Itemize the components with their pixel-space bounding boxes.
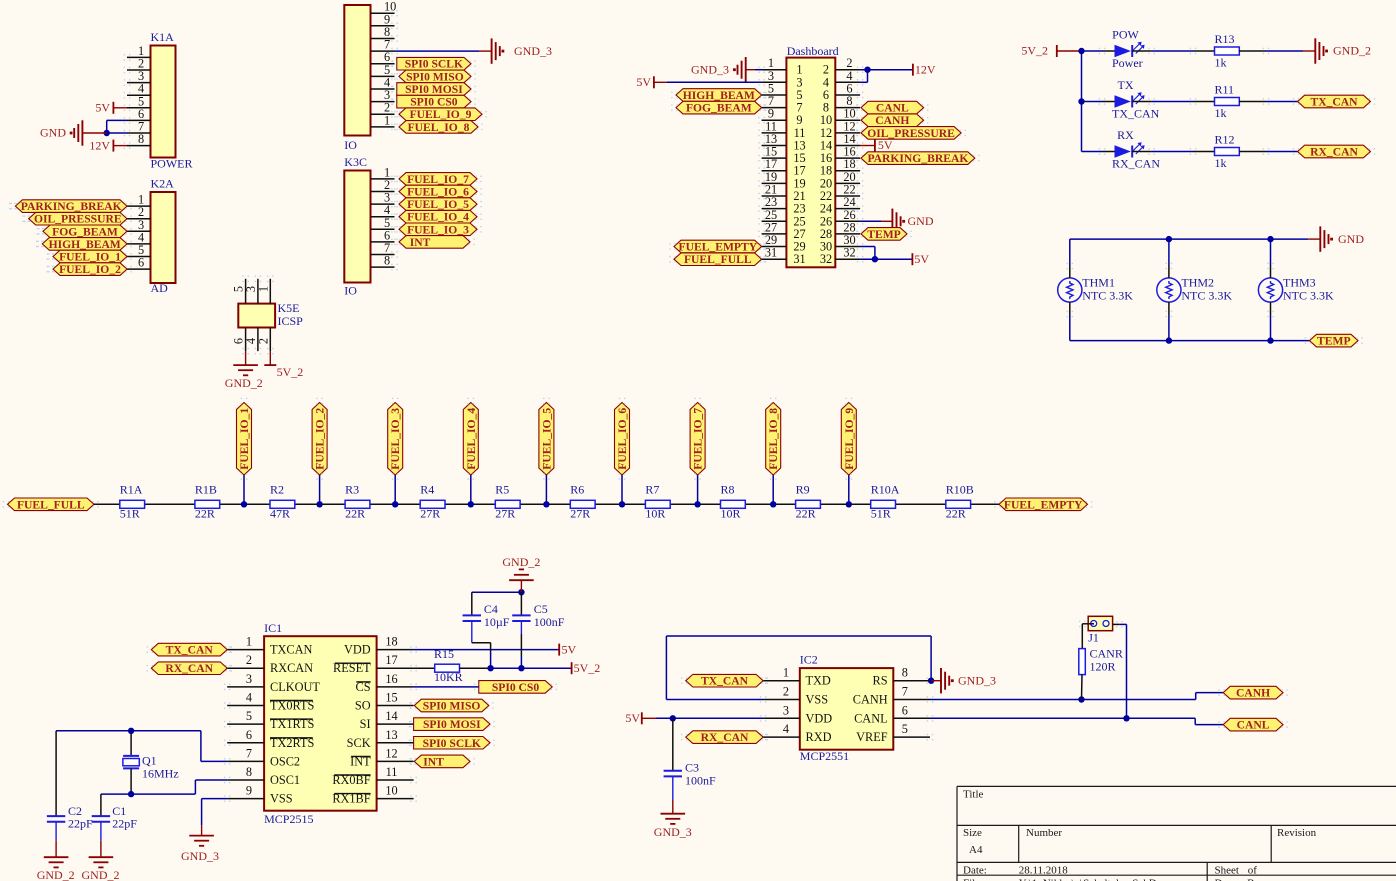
svg-text:SPI0 SCLK: SPI0 SCLK [423, 737, 481, 750]
svg-text:HIGH_BEAM: HIGH_BEAM [49, 238, 121, 251]
svg-text:100nF: 100nF [685, 774, 716, 788]
svg-text:AD: AD [151, 281, 169, 295]
svg-text:TEMP: TEMP [867, 228, 901, 241]
svg-text:K3C: K3C [344, 155, 367, 169]
svg-text:120R: 120R [1090, 660, 1116, 674]
svg-text:SO: SO [355, 699, 371, 713]
svg-text:FUEL_IO_2: FUEL_IO_2 [59, 263, 121, 276]
svg-text:5V: 5V [636, 75, 651, 89]
svg-text:VDD: VDD [344, 643, 371, 657]
svg-text:R4: R4 [420, 483, 434, 497]
svg-text:6: 6 [246, 728, 252, 742]
svg-text:5V: 5V [914, 252, 929, 266]
svg-text:OSC2: OSC2 [270, 754, 300, 768]
svg-text:1k: 1k [1215, 106, 1227, 120]
svg-text:GND_3: GND_3 [181, 849, 219, 863]
svg-text:IC2: IC2 [800, 653, 818, 667]
svg-text:CLKOUT: CLKOUT [270, 680, 320, 694]
svg-text:IO: IO [344, 138, 357, 152]
svg-text:R9: R9 [796, 483, 810, 497]
svg-text:5V_2: 5V_2 [574, 661, 601, 675]
svg-text:R2: R2 [270, 483, 284, 497]
svg-text:FUEL_IO_7: FUEL_IO_7 [407, 173, 469, 186]
svg-text:GND_3: GND_3 [958, 673, 996, 687]
svg-text:FUEL_IO_8: FUEL_IO_8 [408, 121, 470, 134]
svg-text:R6: R6 [570, 483, 584, 497]
svg-text:INT: INT [410, 236, 431, 249]
svg-text:VSS: VSS [270, 792, 293, 806]
svg-text:22R: 22R [946, 507, 966, 521]
svg-text:CANL: CANL [876, 102, 909, 115]
svg-text:Q1: Q1 [142, 754, 157, 768]
svg-text:Revision: Revision [1277, 827, 1317, 839]
svg-text:GND_2: GND_2 [502, 555, 540, 569]
svg-text:14: 14 [385, 709, 397, 723]
svg-text:FUEL_IO_9: FUEL_IO_9 [843, 408, 856, 470]
svg-text:1: 1 [384, 113, 390, 127]
svg-text:SPI0 MISO: SPI0 MISO [406, 70, 464, 83]
svg-text:R13: R13 [1215, 32, 1235, 46]
svg-text:K5E: K5E [278, 301, 300, 315]
svg-text:5V: 5V [562, 642, 577, 656]
svg-text:TXD: TXD [806, 674, 831, 688]
svg-text:RX_CAN: RX_CAN [701, 731, 749, 744]
svg-text:R10A: R10A [871, 483, 900, 497]
svg-text:GND: GND [40, 126, 66, 140]
svg-text:CANH: CANH [875, 114, 909, 127]
svg-text:TX: TX [1118, 78, 1134, 92]
svg-text:FUEL_IO_3: FUEL_IO_3 [389, 408, 402, 470]
svg-text:32: 32 [820, 252, 832, 266]
svg-text:47R: 47R [270, 507, 290, 521]
svg-text:GND_2: GND_2 [225, 376, 263, 390]
svg-text:100nF: 100nF [534, 615, 565, 629]
svg-text:Date:: Date: [963, 864, 987, 876]
svg-text:TX_CAN: TX_CAN [1112, 107, 1160, 121]
svg-text:FUEL_IO_5: FUEL_IO_5 [540, 408, 553, 470]
svg-text:FUEL_IO_6: FUEL_IO_6 [616, 408, 629, 470]
svg-text:R10B: R10B [946, 483, 974, 497]
svg-text:27R: 27R [570, 507, 590, 521]
svg-text:13: 13 [385, 728, 397, 742]
svg-text:12V: 12V [89, 138, 110, 152]
svg-text:R5: R5 [495, 483, 509, 497]
svg-text:22pF: 22pF [68, 817, 93, 831]
svg-text:GND_3: GND_3 [514, 44, 552, 58]
svg-text:22R: 22R [195, 507, 215, 521]
svg-text:CANR: CANR [1090, 647, 1123, 661]
svg-text:10KR: 10KR [434, 670, 463, 684]
svg-text:16MHz: 16MHz [142, 767, 179, 781]
svg-text:SPI0 MISO: SPI0 MISO [423, 700, 481, 713]
svg-text:31: 31 [793, 252, 805, 266]
svg-text:RX_CAN: RX_CAN [1310, 146, 1358, 159]
svg-text:SPI0 MOSI: SPI0 MOSI [423, 718, 481, 731]
svg-text:SPI0 CS0: SPI0 CS0 [492, 681, 540, 694]
svg-text:GND: GND [908, 214, 934, 228]
svg-text:TX_CAN: TX_CAN [166, 644, 214, 657]
svg-text:R3: R3 [345, 483, 359, 497]
svg-text:CANH: CANH [1236, 687, 1270, 700]
svg-text:R12: R12 [1215, 133, 1235, 147]
svg-text:THM3: THM3 [1283, 276, 1316, 290]
svg-text:TXCAN: TXCAN [270, 643, 312, 657]
svg-text:FUEL_IO_5: FUEL_IO_5 [407, 198, 469, 211]
svg-text:1: 1 [783, 666, 789, 680]
svg-text:MCP2515: MCP2515 [264, 812, 313, 826]
svg-text:R7: R7 [645, 483, 659, 497]
svg-text:RS: RS [873, 674, 888, 688]
svg-text:THM2: THM2 [1181, 276, 1214, 290]
svg-text:THM1: THM1 [1082, 276, 1115, 290]
svg-text:R1A: R1A [120, 483, 143, 497]
svg-text:POW: POW [1112, 28, 1139, 42]
svg-text:1k: 1k [1215, 156, 1227, 170]
svg-text:12V: 12V [915, 62, 936, 76]
svg-text:SCK: SCK [347, 736, 371, 750]
svg-text:NTC 3.3K: NTC 3.3K [1181, 289, 1232, 303]
svg-text:7: 7 [902, 685, 908, 699]
svg-text:Number: Number [1026, 827, 1062, 839]
svg-text:GND: GND [1338, 232, 1364, 246]
svg-text:17: 17 [385, 653, 397, 667]
svg-text:VSS: VSS [806, 693, 829, 707]
svg-text:10µF: 10µF [484, 615, 510, 629]
svg-text:51R: 51R [871, 507, 891, 521]
svg-text:A4: A4 [969, 844, 983, 856]
svg-text:16: 16 [385, 672, 397, 686]
svg-text:NTC 3.3K: NTC 3.3K [1283, 289, 1334, 303]
svg-text:10: 10 [385, 784, 397, 798]
svg-text:2: 2 [783, 685, 789, 699]
svg-text:8: 8 [138, 132, 144, 146]
svg-text:GND_3: GND_3 [654, 825, 692, 839]
svg-text:J1: J1 [1088, 631, 1099, 645]
svg-text:RXD: RXD [806, 730, 832, 744]
svg-text:5: 5 [902, 722, 908, 736]
svg-text:18: 18 [385, 635, 397, 649]
svg-text:Y:\1. Niklas\..\Schaltplan.Sch: Y:\1. Niklas\..\Schaltplan.SchDoc [1019, 878, 1168, 881]
svg-text:4: 4 [783, 722, 789, 736]
svg-text:6: 6 [902, 703, 908, 717]
svg-text:CANL: CANL [854, 711, 887, 725]
svg-text:HIGH_BEAM: HIGH_BEAM [683, 89, 755, 102]
svg-text:5: 5 [246, 709, 252, 723]
svg-text:1k: 1k [1215, 56, 1227, 70]
svg-text:12: 12 [385, 746, 397, 760]
svg-text:TX_CAN: TX_CAN [1310, 96, 1358, 109]
svg-text:SPI0 MOSI: SPI0 MOSI [405, 83, 463, 96]
svg-text:R1B: R1B [195, 483, 217, 497]
svg-text:RXCAN: RXCAN [270, 661, 313, 675]
svg-text:INT: INT [423, 755, 444, 768]
svg-text:K1A: K1A [151, 30, 175, 44]
svg-text:5V: 5V [878, 138, 893, 152]
svg-text:Drawn By:: Drawn By: [1215, 878, 1264, 881]
svg-text:5V: 5V [95, 101, 110, 115]
svg-text:2: 2 [256, 338, 270, 344]
svg-text:GND_2: GND_2 [1333, 44, 1371, 58]
svg-text:22pF: 22pF [112, 817, 137, 831]
svg-text:File:: File: [963, 878, 983, 881]
svg-text:POWER: POWER [151, 157, 193, 171]
svg-text:22R: 22R [345, 507, 365, 521]
svg-text:32: 32 [843, 246, 855, 260]
svg-text:GND_3: GND_3 [691, 62, 729, 76]
svg-text:R8: R8 [721, 483, 735, 497]
svg-text:FUEL_IO_6: FUEL_IO_6 [407, 186, 469, 199]
svg-text:SPI0 CS0: SPI0 CS0 [410, 96, 458, 109]
svg-text:SI: SI [360, 717, 371, 731]
svg-text:Title: Title [963, 789, 984, 801]
svg-text:MCP2551: MCP2551 [800, 749, 849, 763]
svg-text:FUEL_IO_8: FUEL_IO_8 [767, 408, 780, 470]
svg-text:2: 2 [246, 653, 252, 667]
svg-text:51R: 51R [120, 507, 140, 521]
svg-text:ICSP: ICSP [278, 314, 304, 328]
svg-text:PARKING_BREAK: PARKING_BREAK [21, 200, 122, 213]
svg-text:1: 1 [246, 635, 252, 649]
svg-text:FUEL_IO_4: FUEL_IO_4 [465, 408, 478, 470]
svg-text:TX_CAN: TX_CAN [701, 675, 749, 688]
svg-text:Size: Size [963, 827, 982, 839]
svg-text:FUEL_IO_3: FUEL_IO_3 [407, 223, 469, 236]
svg-text:VDD: VDD [806, 711, 833, 725]
svg-text:GND_2: GND_2 [37, 868, 75, 881]
svg-text:FUEL_EMPTY: FUEL_EMPTY [1004, 498, 1083, 511]
svg-text:C3: C3 [685, 761, 699, 775]
svg-text:CANL: CANL [1237, 719, 1270, 732]
svg-text:FUEL_IO_7: FUEL_IO_7 [692, 408, 705, 470]
svg-text:SPI0 SCLK: SPI0 SCLK [405, 58, 463, 71]
svg-text:FOG_BEAM: FOG_BEAM [686, 102, 752, 115]
svg-text:RX: RX [1117, 128, 1134, 142]
svg-text:8: 8 [384, 254, 390, 268]
svg-text:NTC 3.3K: NTC 3.3K [1082, 289, 1133, 303]
svg-text:FUEL_IO_1: FUEL_IO_1 [238, 408, 251, 470]
svg-text:FUEL_IO_1: FUEL_IO_1 [59, 251, 121, 264]
svg-text:C5: C5 [534, 602, 548, 616]
svg-text:22R: 22R [796, 507, 816, 521]
svg-text:FUEL_FULL: FUEL_FULL [684, 253, 752, 266]
svg-text:PARKING_BREAK: PARKING_BREAK [867, 152, 968, 165]
svg-text:8: 8 [902, 666, 908, 680]
svg-text:10R: 10R [721, 507, 741, 521]
svg-text:FUEL_EMPTY: FUEL_EMPTY [679, 241, 758, 254]
svg-text:5V_2: 5V_2 [277, 365, 304, 379]
svg-text:IO: IO [344, 284, 357, 298]
svg-text:15: 15 [385, 691, 397, 705]
svg-text:5V_2: 5V_2 [1021, 44, 1048, 58]
svg-text:FUEL_IO_2: FUEL_IO_2 [314, 408, 327, 470]
svg-text:R15: R15 [434, 647, 454, 661]
svg-text:3: 3 [246, 672, 252, 686]
svg-text:4: 4 [246, 691, 252, 705]
svg-text:OIL_PRESSURE: OIL_PRESSURE [34, 213, 122, 226]
svg-text:OSC1: OSC1 [270, 773, 300, 787]
svg-text:9: 9 [246, 784, 252, 798]
svg-text:27R: 27R [495, 507, 515, 521]
svg-text:FOG_BEAM: FOG_BEAM [52, 225, 118, 238]
svg-text:R11: R11 [1215, 83, 1235, 97]
svg-text:28.11.2018: 28.11.2018 [1019, 864, 1069, 876]
svg-text:FUEL_IO_9: FUEL_IO_9 [410, 108, 472, 121]
svg-text:RX_CAN: RX_CAN [165, 662, 213, 675]
svg-text:RX_CAN: RX_CAN [1112, 157, 1160, 171]
svg-text:6: 6 [138, 256, 144, 270]
svg-text:31: 31 [765, 246, 777, 260]
svg-text:1: 1 [256, 286, 270, 292]
svg-text:C4: C4 [484, 602, 498, 616]
svg-text:FUEL_FULL: FUEL_FULL [17, 498, 85, 511]
svg-text:K2A: K2A [151, 177, 175, 191]
svg-text:3: 3 [783, 703, 789, 717]
svg-text:IC1: IC1 [264, 621, 282, 635]
svg-text:10R: 10R [645, 507, 665, 521]
svg-text:27R: 27R [420, 507, 440, 521]
svg-text:TEMP: TEMP [1317, 335, 1351, 348]
svg-text:VREF: VREF [856, 730, 888, 744]
svg-text:Power: Power [1112, 56, 1143, 70]
svg-text:7: 7 [246, 746, 252, 760]
svg-text:CANH: CANH [853, 693, 888, 707]
svg-text:Dashboard: Dashboard [787, 44, 839, 58]
svg-text:GND_2: GND_2 [82, 868, 120, 881]
svg-text:of: of [1248, 864, 1258, 876]
svg-text:Sheet: Sheet [1215, 864, 1239, 876]
svg-text:5V: 5V [625, 711, 640, 725]
svg-text:8: 8 [246, 765, 252, 779]
svg-text:11: 11 [386, 765, 398, 779]
svg-text:FUEL_IO_4: FUEL_IO_4 [407, 211, 469, 224]
